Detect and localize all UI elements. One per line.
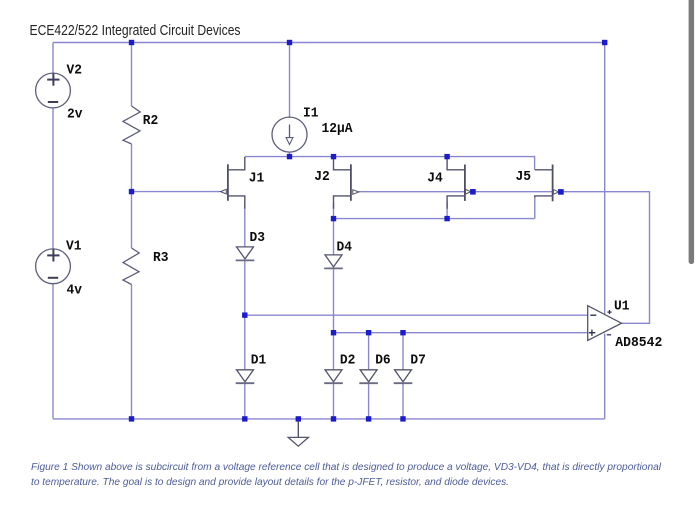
diode D7	[394, 370, 413, 383]
svg-text:D6: D6	[375, 353, 391, 369]
wire U1 V- to ground rail	[604, 334, 606, 419]
wire inv node to U1	[334, 332, 590, 334]
junction J2 drain	[331, 154, 336, 159]
caption line 1	[31, 462, 662, 473]
svg-text:D4: D4	[337, 240, 353, 256]
junction J4 source node	[444, 216, 449, 221]
label V2	[67, 62, 83, 78]
svg-text:2v: 2v	[67, 106, 83, 122]
svg-text:I1: I1	[303, 106, 319, 122]
junction J2 source node	[331, 216, 336, 221]
label U1	[614, 299, 630, 315]
junction D7 top	[400, 330, 405, 335]
junction noninv node D3 D1	[242, 312, 247, 317]
label D2	[340, 353, 356, 369]
svg-text:ECE422/522 Integrated Circuit: ECE422/522 Integrated Circuit Devices	[30, 22, 241, 39]
wire source rail y156	[245, 157, 535, 170]
wire R3 top lead	[131, 192, 133, 248]
wire left vertical V2-V1 branch	[52, 43, 54, 419]
junction I1 bottom	[287, 154, 292, 159]
label J2	[314, 169, 330, 185]
wire D1 anode	[244, 315, 246, 370]
value 4v	[67, 283, 83, 299]
label J4	[427, 170, 443, 186]
diode D6	[359, 370, 378, 383]
scrollbar thumb	[689, 0, 695, 264]
junction bottom rail ground	[296, 416, 301, 421]
label D7	[410, 353, 426, 369]
svg-text:12µA: 12µA	[322, 121, 354, 137]
svg-text:J2: J2	[314, 169, 330, 185]
voltage source V2	[36, 73, 71, 108]
svg-text:J4: J4	[427, 170, 443, 186]
voltage source V1	[36, 249, 71, 284]
svg-text:V2: V2	[67, 62, 83, 78]
wire D1 cathode	[244, 383, 246, 419]
wire J4 source drop	[446, 202, 448, 219]
value 12uA	[322, 121, 354, 137]
label D4	[337, 240, 353, 256]
wire R3 bottom lead	[131, 285, 133, 419]
label D6	[375, 353, 391, 369]
svg-text:V1: V1	[66, 239, 82, 255]
label J5	[516, 169, 532, 185]
transistor J2	[334, 157, 359, 209]
transistor J5	[535, 165, 559, 202]
wire noninv node to U1	[245, 314, 590, 316]
wire source bus y218	[334, 218, 535, 220]
label R3	[153, 250, 169, 266]
junction J4 gate	[470, 189, 476, 195]
label R2	[143, 113, 159, 129]
wire D4 anode	[333, 219, 335, 255]
value 2v	[67, 106, 83, 122]
label AD8542	[615, 335, 662, 351]
diode D3	[236, 247, 255, 261]
label J1	[249, 171, 265, 187]
junction bottom rail D7	[400, 416, 405, 421]
wire top rail	[53, 42, 605, 44]
title text	[30, 22, 241, 39]
svg-text:R3: R3	[153, 250, 169, 266]
wire R2 bottom to gate node	[131, 144, 133, 192]
svg-text:D1: D1	[251, 353, 267, 369]
junction top rail R2	[129, 40, 134, 45]
label V1	[66, 239, 82, 255]
junction J5 gate	[558, 189, 564, 195]
wire gate bus to feedback	[359, 192, 650, 324]
diode D4	[324, 255, 343, 269]
transistor J4	[447, 157, 471, 209]
junction D6 top	[366, 330, 371, 335]
wire I1 bottom lead	[289, 152, 291, 157]
ground	[288, 419, 308, 446]
label I1	[303, 106, 319, 122]
svg-text:AD8542: AD8542	[615, 335, 662, 351]
wire R2 top lead	[131, 43, 133, 107]
svg-text:R2: R2	[143, 113, 159, 129]
junction bottom rail D2	[331, 416, 336, 421]
wire J5 source drop	[534, 197, 536, 219]
wire D6 branch	[368, 333, 370, 419]
junction top rail I1	[287, 40, 292, 45]
diode D2	[324, 370, 343, 383]
junction bottom rail D1	[242, 416, 247, 421]
svg-text:to temperature. The goal is t: to temperature. The goal is to design an…	[31, 477, 509, 488]
wire bottom rail	[53, 418, 605, 420]
resistor R2	[123, 106, 140, 144]
wire I1 top lead	[289, 43, 291, 119]
wire J1 source to D3	[244, 202, 246, 247]
junction J4 drain	[444, 154, 449, 159]
resistor R3	[123, 248, 139, 285]
junction bottom rail D6	[366, 416, 371, 421]
wire D4 cathode to inv node	[333, 269, 335, 333]
transistor J1	[220, 157, 244, 209]
label D3	[250, 230, 266, 246]
junction bottom rail R3	[129, 416, 134, 421]
junction top rail right corner	[602, 40, 607, 45]
label D1	[251, 353, 267, 369]
junction inv node D4 D2	[331, 330, 336, 335]
wire D7 branch	[402, 333, 404, 419]
svg-text:J5: J5	[516, 169, 532, 185]
svg-text:Figure 1 Shown above is subcir: Figure 1 Shown above is subcircuit from …	[31, 462, 662, 473]
svg-text:D2: D2	[340, 353, 356, 369]
wire D2 branch	[333, 333, 335, 419]
wire D3 cathode to node	[244, 261, 246, 316]
current source I1	[272, 117, 307, 152]
op-amp U1	[588, 306, 622, 341]
wire gate node to J1 gate	[132, 191, 221, 193]
junction gate node R2 R3	[129, 189, 134, 194]
caption line 2	[31, 477, 509, 488]
svg-text:4v: 4v	[67, 283, 83, 299]
svg-text:D3: D3	[250, 230, 266, 246]
diode D1	[236, 370, 255, 383]
svg-text:J1: J1	[249, 171, 265, 187]
svg-text:D7: D7	[410, 353, 426, 369]
wire J2 source node	[333, 203, 335, 219]
wire U1 V+ supply	[604, 43, 606, 315]
svg-text:U1: U1	[614, 299, 630, 315]
